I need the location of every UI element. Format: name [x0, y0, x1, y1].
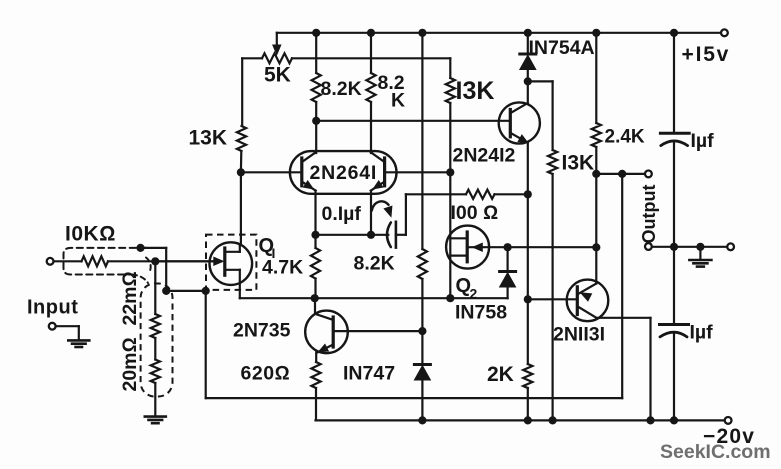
svg-text:I3K: I3K	[562, 152, 595, 175]
resistor 20m ohm	[154, 338, 156, 360]
resistor 10K ohm	[82, 256, 109, 266]
node Q2 gate / 1N758 cathode	[504, 243, 512, 251]
wire A to C	[141, 247, 167, 249]
wire output row	[596, 173, 645, 175]
node S1-13K1 junction	[446, 294, 454, 302]
transistor 2N735	[305, 311, 348, 354]
node gate row end	[592, 243, 600, 251]
node 2N1131 base junction	[524, 295, 532, 303]
wire 8.2K-1 to 2N2641 collector	[315, 121, 317, 153]
svg-text:Output: Output	[639, 185, 659, 244]
wire 2.4K column to 2N1131 emitter	[595, 174, 597, 284]
wire 2N2412 base line	[316, 120, 509, 122]
wire 13K to base node	[240, 151, 243, 172]
transistor Q1 FET	[210, 242, 253, 285]
node ground row cap column	[670, 243, 678, 251]
svg-text:20mΩ: 20mΩ	[119, 337, 141, 391]
output terminal	[645, 171, 652, 178]
node 2N1131 collector bottom rail	[646, 416, 654, 424]
svg-text:IN754A: IN754A	[529, 37, 595, 59]
node D	[202, 287, 210, 295]
resistor 22m ohm	[154, 261, 156, 314]
wire 2N2641 left base	[241, 171, 301, 173]
ground at input	[68, 339, 89, 342]
node base-left junction	[237, 168, 245, 176]
wire x451 column to Q2	[449, 194, 451, 298]
wire D to feedback row	[205, 291, 207, 398]
capacitor 1uf bottom	[673, 247, 675, 325]
svg-text:620Ω: 620Ω	[241, 363, 291, 385]
node IN754A anode junction	[524, 77, 532, 85]
svg-text:IN747: IN747	[343, 363, 395, 385]
svg-text:0.Iµf: 0.Iµf	[322, 203, 362, 225]
arrow on variable capacitor	[372, 201, 389, 210]
zener diode IN747	[421, 331, 423, 364]
dual transistor 2N2641 outline	[290, 151, 397, 194]
node B gate junction	[151, 257, 159, 265]
svg-text:I0KΩ: I0KΩ	[65, 223, 116, 246]
node top rail junction A1	[312, 29, 320, 37]
input terminal	[47, 258, 54, 265]
resistor 8.2K first	[315, 33, 317, 73]
resistor 2K	[527, 299, 529, 364]
transistor Q2 FET	[446, 226, 489, 269]
resistor 100 ohm	[450, 193, 466, 195]
wire 2N2641 left emitter down	[314, 191, 316, 235]
wire feedback row	[206, 397, 623, 399]
node IN747 bottom rail	[418, 416, 426, 424]
svg-text:5K: 5K	[264, 63, 291, 86]
wire C to D	[166, 290, 206, 292]
transistor 2N2641 left half	[300, 158, 303, 186]
node 0.1uf left	[311, 231, 319, 239]
svg-text:2NII3I: 2NII3I	[553, 324, 605, 346]
svg-text:Iµf: Iµf	[690, 322, 714, 344]
svg-text:2.4K: 2.4K	[605, 127, 645, 148]
wire 2N2641 right base	[386, 171, 450, 173]
node top rail junction A2	[367, 29, 375, 37]
wire column x422 upper	[421, 33, 423, 249]
wire pot-left to 13K	[241, 58, 243, 126]
wire 2N2641 right emitter down	[370, 191, 372, 235]
input ground terminal	[49, 323, 56, 330]
resistor 13K left	[237, 126, 246, 151]
resistor 8.2K middle	[418, 249, 427, 279]
zener diode IN758	[507, 247, 509, 271]
wire ground row	[652, 246, 727, 248]
svg-text:SeekIC.com: SeekIC.com	[660, 441, 771, 463]
wire 2N2412 emitter column down	[527, 194, 529, 299]
node 4.7K bottom	[311, 294, 319, 302]
node 0.1uf right	[367, 231, 375, 239]
transistor 2N1131	[567, 280, 609, 322]
svg-text:I00 Ω: I00 Ω	[451, 202, 499, 224]
shield dashed around 22m and 20m resistors	[141, 284, 173, 397]
svg-text:8.2K: 8.2K	[354, 253, 395, 275]
-20v terminal	[725, 417, 732, 424]
svg-text:2N264I: 2N264I	[309, 162, 377, 184]
shield box Q1 dashed	[206, 235, 256, 290]
node cap bottom rail	[670, 416, 678, 424]
node top rail 2.4K	[592, 29, 600, 37]
svg-text:2: 2	[470, 286, 478, 302]
node 100ohm right	[524, 190, 532, 198]
potentiometer 5K	[276, 33, 278, 46]
node 13K-4 bottom rail	[549, 416, 557, 424]
resistor 620 ohm	[311, 362, 320, 388]
node ground row ground stub	[696, 243, 704, 251]
svg-text:+I5v: +I5v	[682, 43, 731, 66]
svg-text:IN758: IN758	[455, 302, 507, 324]
svg-text:8.2K: 8.2K	[321, 78, 362, 100]
wire top +15v rail	[277, 32, 721, 34]
svg-text:I3K: I3K	[456, 77, 495, 105]
node feedback riser top	[618, 170, 626, 178]
shield dashed around 10K	[64, 248, 147, 275]
svg-text:13K: 13K	[189, 127, 228, 150]
capacitor 1uf top	[673, 33, 675, 133]
svg-text:2N735: 2N735	[233, 320, 291, 342]
wire 10K to gate	[108, 260, 214, 262]
svg-text:22mΩ: 22mΩ	[119, 271, 141, 325]
node base-right junction	[446, 168, 454, 176]
svg-text:2N24I2: 2N24I2	[453, 145, 516, 167]
ground line terminal right	[727, 243, 734, 250]
node top rail cap column	[670, 29, 678, 37]
wire 2N1131 collector	[596, 317, 650, 319]
node top rail IN754A	[524, 29, 532, 37]
resistor 13K fourth	[548, 150, 557, 174]
transistor 2N2412	[499, 102, 540, 143]
node A on shield	[136, 244, 144, 252]
resistor 13K third	[449, 58, 451, 78]
wire Q2 gate row to 2N1131 emitter column	[508, 246, 597, 248]
zener diode IN754A	[527, 33, 529, 54]
svg-text:Input: Input	[27, 297, 78, 319]
ground symbol output	[699, 247, 701, 260]
node 2N735 base to x422 column	[418, 327, 426, 335]
node C	[162, 287, 170, 295]
wire 2N1131 base	[528, 298, 576, 300]
node top rail junction A3	[418, 29, 426, 37]
wire 2N735 base	[334, 330, 422, 332]
svg-text:4.7K: 4.7K	[262, 257, 303, 279]
svg-text:K: K	[391, 90, 405, 112]
svg-text:2K: 2K	[487, 363, 514, 386]
wire Q1 source row S1	[240, 297, 508, 299]
node 2K bottom rail	[524, 416, 532, 424]
ground below 20m ohm	[145, 415, 166, 418]
capacitor 0.1uf variable	[371, 234, 388, 236]
resistor 4.7K	[314, 235, 316, 248]
resistor 2.4K	[595, 33, 597, 123]
resistor 8.2K second	[370, 33, 372, 73]
+15v terminal	[721, 29, 728, 36]
transistor 2N2641 right half	[383, 158, 386, 186]
wire feedback riser	[621, 174, 623, 398]
wire input to 10K	[54, 260, 82, 262]
node output row left	[592, 170, 600, 178]
node 8.2K-1 bottom / 2N2412 base tap	[312, 117, 320, 125]
wire x451 column upper	[449, 172, 451, 194]
wire bottom -20v rail	[316, 419, 725, 421]
wire 0.1uf row	[316, 234, 372, 236]
svg-text:Iµf: Iµf	[691, 130, 715, 152]
wire to 13K fourth	[528, 80, 553, 82]
ground line terminal left	[645, 243, 652, 250]
svg-text:I: I	[272, 245, 276, 261]
